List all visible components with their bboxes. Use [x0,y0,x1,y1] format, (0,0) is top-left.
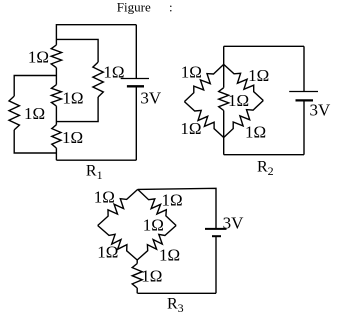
svg-text:1Ω: 1Ω [103,62,124,81]
svg-text:1Ω: 1Ω [24,104,45,123]
svg-text:1Ω: 1Ω [180,119,201,138]
svg-text::: : [169,0,173,14]
svg-text:1Ω: 1Ω [162,191,183,210]
svg-text:1Ω: 1Ω [97,243,118,262]
svg-text:3V: 3V [223,214,245,233]
svg-text:3V: 3V [310,101,332,120]
svg-text:1Ω: 1Ω [141,267,162,286]
svg-text:1Ω: 1Ω [228,91,249,110]
svg-text:1Ω: 1Ω [245,123,266,142]
svg-text:Figure: Figure [117,0,151,14]
svg-text:1Ω: 1Ω [248,66,269,85]
svg-text:1Ω: 1Ω [181,62,202,81]
svg-text:3V: 3V [140,88,162,107]
svg-text:1Ω: 1Ω [28,47,49,66]
svg-text:1Ω: 1Ω [159,246,180,265]
svg-text:1Ω: 1Ω [62,128,83,147]
svg-text:1Ω: 1Ω [143,216,164,235]
svg-text:1Ω: 1Ω [62,89,83,108]
svg-text:1Ω: 1Ω [94,187,115,206]
